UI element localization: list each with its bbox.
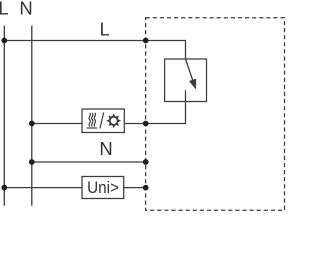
device outline (dashed enclosure) — [146, 18, 285, 210]
heating symbol — [87, 113, 98, 128]
svg-text:N: N — [99, 138, 112, 159]
wire Uni left segment — [4, 187, 82, 189]
wire N rail vertical — [31, 26, 33, 206]
svg-text:N: N — [19, 0, 32, 18]
cooling symbol — [106, 113, 121, 128]
node N rail / N wire — [29, 159, 35, 165]
node terminal Uni at enclosure — [143, 185, 149, 191]
node N rail / load wire — [29, 121, 35, 127]
svg-text:Uni>: Uni> — [87, 178, 119, 197]
wire N — [32, 161, 146, 163]
wire L rail vertical — [3, 26, 5, 206]
node L rail / Uni wire — [1, 185, 7, 191]
relay output wire to load terminal — [146, 90, 186, 123]
node terminal L at enclosure — [143, 38, 149, 44]
wire load box to N rail — [32, 123, 82, 125]
wire terminal to load box — [124, 123, 145, 125]
wire Uni right segment — [124, 187, 146, 189]
wire L to relay — [4, 41, 185, 60]
load box (heating / cooling) — [82, 109, 124, 133]
node terminal load at enclosure — [143, 121, 149, 127]
separator slash — [100, 113, 104, 129]
svg-text:L: L — [100, 20, 110, 40]
relay contact arrow — [186, 59, 196, 88]
relay contact U1 box — [165, 59, 207, 102]
auxiliary input box Uni — [82, 177, 124, 199]
node L rail / L wire — [1, 38, 7, 44]
svg-text:L: L — [0, 0, 9, 18]
node terminal N at enclosure — [143, 159, 149, 165]
